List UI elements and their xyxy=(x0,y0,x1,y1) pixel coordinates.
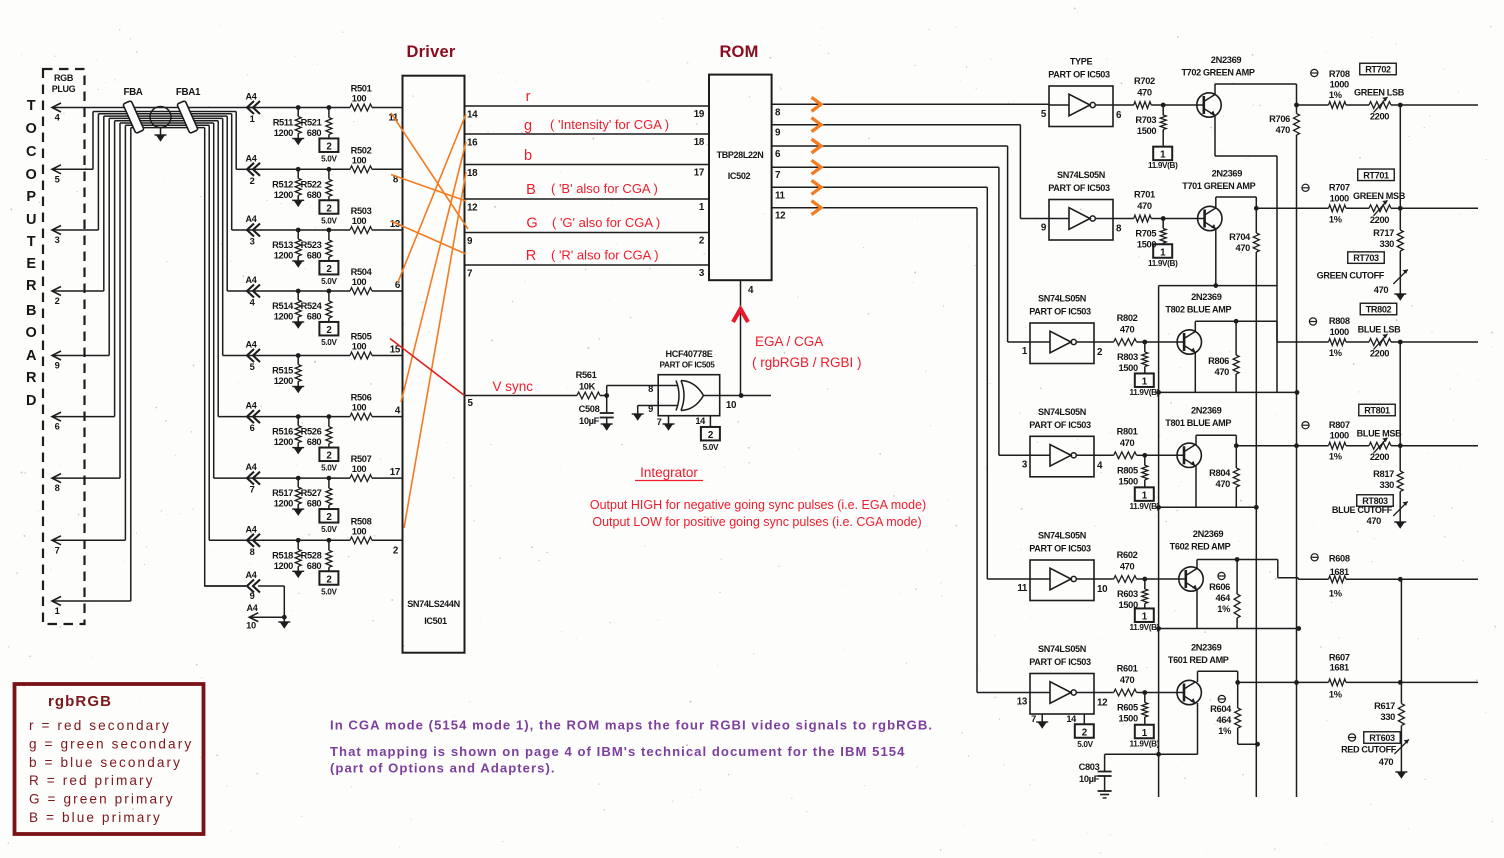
svg-text:11.9V(B): 11.9V(B) xyxy=(1130,623,1160,632)
wire T701 emitter route xyxy=(1159,229,1277,288)
svg-text:12: 12 xyxy=(467,203,478,214)
wire to XOR pin 8 xyxy=(607,386,659,396)
node T702 output xyxy=(1294,103,1299,108)
svg-text:680: 680 xyxy=(307,312,322,322)
svg-text:IC501: IC501 xyxy=(424,616,447,626)
node (base of T601) xyxy=(1142,690,1184,695)
driver pin 8 xyxy=(393,174,399,185)
svg-text:RT801: RT801 xyxy=(1364,406,1390,416)
potentiometer RED CUTOFF 470 xyxy=(1341,726,1409,772)
svg-text:2N2369: 2N2369 xyxy=(1191,405,1222,415)
svg-text:R607: R607 xyxy=(1329,652,1350,662)
svg-text:100: 100 xyxy=(352,94,367,104)
svg-text:1500: 1500 xyxy=(1137,126,1156,136)
wire row 2 xyxy=(246,168,403,170)
svg-text:A4: A4 xyxy=(246,524,258,534)
svg-text:R = red primary: R = red primary xyxy=(29,773,155,788)
transistor T802 2N2369 xyxy=(1165,292,1231,354)
net label R xyxy=(526,248,659,265)
svg-text:680: 680 xyxy=(307,128,322,138)
svg-text:100: 100 xyxy=(352,155,367,165)
svg-text:9: 9 xyxy=(1041,223,1047,234)
svg-text:4: 4 xyxy=(748,285,754,296)
svg-text:T702 GREEN AMP: T702 GREEN AMP xyxy=(1181,68,1254,78)
svg-text:7: 7 xyxy=(1031,714,1036,724)
inverter 5 (part of IC503) xyxy=(1017,531,1108,601)
svg-text:T701 GREEN AMP: T701 GREEN AMP xyxy=(1182,181,1255,191)
svg-text:10µF: 10µF xyxy=(579,416,600,426)
svg-text:680: 680 xyxy=(307,561,322,571)
svg-text:R527: R527 xyxy=(301,488,322,498)
wire row 3 xyxy=(246,229,403,231)
svg-text:2: 2 xyxy=(55,296,60,306)
wire T802 collector route xyxy=(1195,321,1277,342)
wire T601 emitter route xyxy=(1105,703,1198,757)
ROM IC502 TBP28L22N (box) xyxy=(709,75,772,281)
svg-text:TBP28L22N: TBP28L22N xyxy=(717,150,764,160)
wire to right edge xyxy=(1398,443,1478,448)
vertical caption TO COMPUTER BOARD xyxy=(26,98,37,409)
plug pin 3 wire xyxy=(52,114,98,245)
wire T601 collector route xyxy=(1198,671,1238,682)
svg-text:1: 1 xyxy=(1142,728,1148,739)
svg-text:14: 14 xyxy=(1066,714,1077,724)
svg-text:5.0V: 5.0V xyxy=(321,155,337,164)
ground (green cutoff) xyxy=(1394,294,1406,301)
svg-text:7: 7 xyxy=(55,545,60,555)
svg-text:( 'Intensity' for CGA ): ( 'Intensity' for CGA ) xyxy=(550,117,669,132)
svg-text:100: 100 xyxy=(352,526,367,536)
arrow marker A4-5 xyxy=(246,340,260,373)
svg-text:18: 18 xyxy=(694,137,705,148)
arrow marker A4-10 xyxy=(246,603,290,631)
power ref box 1 / 11.9V(B) xyxy=(1130,487,1160,511)
svg-text:1500: 1500 xyxy=(1119,363,1138,373)
svg-text:SN74LS05N: SN74LS05N xyxy=(1038,294,1086,304)
svg-text:R817: R817 xyxy=(1373,469,1394,479)
svg-text:RT701: RT701 xyxy=(1363,170,1389,180)
svg-text:A4: A4 xyxy=(246,340,258,350)
inverter 1 (part of IC503) xyxy=(1041,57,1122,127)
wire ROM pin 7 to inverter 4 xyxy=(772,167,1030,455)
driver pin 2 xyxy=(393,545,399,556)
svg-text:T: T xyxy=(27,234,36,250)
svg-text:( rgbRGB / RGBI ): ( rgbRGB / RGBI ) xyxy=(752,355,862,370)
svg-text:1%: 1% xyxy=(1329,452,1343,462)
svg-text:1%: 1% xyxy=(1329,689,1343,699)
svg-text:Integrator: Integrator xyxy=(640,465,698,480)
svg-text:464: 464 xyxy=(1217,715,1233,725)
svg-text:4: 4 xyxy=(55,113,61,123)
node (base of T802) xyxy=(1142,340,1184,345)
resistor R603 1500 xyxy=(1117,579,1148,610)
svg-text:1500: 1500 xyxy=(1119,476,1138,486)
svg-text:1%: 1% xyxy=(1329,90,1343,100)
boxed label RT701 xyxy=(1358,169,1395,181)
svg-text:3: 3 xyxy=(250,237,255,247)
resistor R704 470 xyxy=(1229,208,1259,253)
ground (C508) xyxy=(601,424,613,431)
svg-text:464: 464 xyxy=(1216,593,1232,603)
XOR pin 7 ground xyxy=(657,416,675,431)
capacitor C508 10uF xyxy=(579,396,614,427)
resistor R514 1200 xyxy=(272,289,304,329)
svg-text:1000: 1000 xyxy=(1330,193,1349,203)
svg-text:R717: R717 xyxy=(1373,228,1394,238)
arrow marker A4-4 xyxy=(246,275,260,308)
svg-text:R516: R516 xyxy=(272,427,293,437)
inverter 6 pin 14 to box 2 xyxy=(1066,714,1093,749)
svg-text:P: P xyxy=(26,189,36,205)
svg-text:BLUE CUTOFF: BLUE CUTOFF xyxy=(1332,505,1393,515)
svg-text:1200: 1200 xyxy=(274,437,293,447)
svg-text:R512: R512 xyxy=(272,179,293,189)
plug pin 2 wire xyxy=(52,116,104,306)
svg-text:470: 470 xyxy=(1120,562,1135,572)
wire T701 collector route xyxy=(1216,197,1257,208)
svg-text:That mapping is shown on page: That mapping is shown on page 4 of IBM's… xyxy=(330,744,905,759)
potentiometer GREEN MSB 2200 xyxy=(1346,191,1406,225)
svg-text:9: 9 xyxy=(467,236,473,247)
svg-text:4: 4 xyxy=(1097,460,1103,471)
svg-text:2: 2 xyxy=(708,430,714,441)
wire bundle right legs xyxy=(205,112,246,587)
resistor R508 100 xyxy=(350,516,372,543)
svg-text:A4: A4 xyxy=(246,214,258,224)
svg-text:B: B xyxy=(526,182,536,198)
driver pin 11 xyxy=(388,113,399,124)
svg-text:g: g xyxy=(524,118,532,134)
svg-text:R504: R504 xyxy=(351,267,373,277)
svg-text:9: 9 xyxy=(775,128,781,139)
svg-text:1000: 1000 xyxy=(1330,327,1349,337)
svg-text:T: T xyxy=(27,98,36,114)
wire row 7 xyxy=(246,477,403,479)
node (base of T801) xyxy=(1142,453,1184,458)
power ref box 1 / 11.9V(B) xyxy=(1130,373,1160,397)
ferrite bead FBA1 xyxy=(176,87,201,133)
svg-text:14: 14 xyxy=(695,416,706,426)
svg-text:680: 680 xyxy=(307,251,322,261)
resistor R701 470 xyxy=(1113,190,1163,222)
svg-text:(part of Options and Adapters): (part of Options and Adapters). xyxy=(330,761,556,776)
bus green (RT70x) xyxy=(1399,105,1401,230)
driver pin 5 / V sync wire xyxy=(465,379,578,409)
svg-text:R807: R807 xyxy=(1329,420,1350,430)
svg-text:1200: 1200 xyxy=(274,128,293,138)
svg-text:rgbRGB: rgbRGB xyxy=(48,693,112,710)
svg-text:R803: R803 xyxy=(1117,352,1138,362)
svg-text:2: 2 xyxy=(326,451,332,462)
transistor T701 2N2369 xyxy=(1182,169,1255,231)
svg-text:1200: 1200 xyxy=(274,312,293,322)
svg-text:1: 1 xyxy=(1142,612,1148,623)
potentiometer BLUE CUTOFF 470 xyxy=(1332,491,1408,526)
resistor R605 1500 xyxy=(1117,693,1148,725)
svg-text:11.9V(B): 11.9V(B) xyxy=(1130,502,1160,511)
svg-text:RED CUTOFF: RED CUTOFF xyxy=(1341,745,1397,755)
svg-text:R808: R808 xyxy=(1329,316,1350,326)
power ref box 2 / 5.0V xyxy=(319,322,338,347)
bus B2 (x=1256.3) xyxy=(1255,252,1257,797)
svg-text:2N2369: 2N2369 xyxy=(1211,55,1242,65)
resistor R617 330 xyxy=(1374,701,1404,726)
plug pin 4 wire xyxy=(52,103,252,123)
power ref box 2 / 5.0V xyxy=(319,138,338,163)
resistor R807 1000 1% (output row 4) xyxy=(1236,420,1350,462)
svg-text:A4: A4 xyxy=(246,401,258,411)
svg-text:O: O xyxy=(26,325,37,341)
wire driver pin 18 to ROM pin 17 xyxy=(465,165,710,180)
svg-text:R521: R521 xyxy=(301,118,322,128)
resistor R607 1681 1% (output row 6) xyxy=(1238,652,1350,699)
net label EGA / CGA xyxy=(752,334,862,370)
resistor R708 1000 1% (output row 1) xyxy=(1297,69,1350,108)
orange chevron marker 3 xyxy=(812,139,822,153)
resistor R523 680 xyxy=(301,228,332,261)
svg-text:A4: A4 xyxy=(247,603,259,613)
potentiometer GREEN LSB 2200 xyxy=(1346,88,1405,122)
svg-text:8: 8 xyxy=(55,483,60,493)
resistor R518 1200 xyxy=(272,538,304,578)
svg-text:PART OF IC503: PART OF IC503 xyxy=(1029,544,1091,554)
svg-text:R706: R706 xyxy=(1269,114,1290,124)
svg-text:5: 5 xyxy=(55,174,60,184)
svg-text:1681: 1681 xyxy=(1330,567,1349,577)
wire ROM pin 6 to inverter 3 xyxy=(772,146,1030,342)
net label B xyxy=(526,181,658,198)
svg-text:2: 2 xyxy=(326,142,332,153)
wire driver pin 9 to ROM pin 2 xyxy=(465,233,710,248)
svg-text:D: D xyxy=(26,393,36,409)
svg-text:Output HIGH for negative going: Output HIGH for negative going sync puls… xyxy=(590,498,926,512)
svg-text:G = green primary: G = green primary xyxy=(29,792,175,807)
node (base of T702) xyxy=(1161,103,1204,108)
svg-text:R702: R702 xyxy=(1134,76,1155,86)
svg-text:100: 100 xyxy=(352,403,367,413)
svg-text:1%: 1% xyxy=(1217,604,1231,614)
node T701 output xyxy=(1254,206,1259,211)
svg-text:R806: R806 xyxy=(1208,356,1229,366)
svg-text:g = green secondary: g = green secondary xyxy=(29,736,193,751)
resistor R522 680 xyxy=(301,167,332,200)
svg-text:14: 14 xyxy=(467,110,478,121)
svg-text:100: 100 xyxy=(352,464,367,474)
svg-text:Driver: Driver xyxy=(407,43,456,61)
svg-text:GREEN LSB: GREEN LSB xyxy=(1354,88,1405,98)
svg-text:C803: C803 xyxy=(1079,762,1100,772)
connector RGB PLUG (dashed outline) xyxy=(43,69,85,624)
net label b xyxy=(524,148,532,164)
svg-text:R707: R707 xyxy=(1329,183,1350,193)
resistor R526 680 xyxy=(301,414,332,447)
svg-text:1681: 1681 xyxy=(1330,662,1349,672)
svg-text:2: 2 xyxy=(393,545,399,556)
svg-text:470: 470 xyxy=(1120,325,1135,335)
svg-text:R506: R506 xyxy=(351,393,372,403)
svg-text:470: 470 xyxy=(1137,88,1152,98)
svg-text:5.0V: 5.0V xyxy=(703,443,719,452)
svg-text:5: 5 xyxy=(1041,109,1047,120)
svg-text:A4: A4 xyxy=(246,275,258,285)
resistor R515 1200 xyxy=(272,353,304,393)
wire T702 collector route xyxy=(1215,84,1297,105)
svg-text:11.9V(B): 11.9V(B) xyxy=(1148,259,1178,268)
resistor R528 680 xyxy=(301,538,332,571)
svg-text:470: 470 xyxy=(1216,479,1231,489)
svg-text:9: 9 xyxy=(250,591,255,601)
svg-text:2: 2 xyxy=(326,264,332,275)
svg-text:5.0V: 5.0V xyxy=(321,525,337,534)
svg-text:R: R xyxy=(526,248,536,264)
resistor R805 1500 xyxy=(1117,455,1148,487)
resistor R501 100 xyxy=(350,84,372,111)
svg-text:17: 17 xyxy=(390,467,401,478)
svg-text:19: 19 xyxy=(694,109,705,120)
boxed label RT703 xyxy=(1348,252,1385,264)
plug pin 8 wire xyxy=(52,123,120,493)
svg-text:SN74LS05N: SN74LS05N xyxy=(1057,170,1105,180)
svg-text:R805: R805 xyxy=(1117,465,1138,475)
arrow marker A4-7 xyxy=(246,462,260,495)
svg-text:U: U xyxy=(26,212,36,228)
svg-text:470: 470 xyxy=(1236,243,1251,253)
svg-text:SN74LS05N: SN74LS05N xyxy=(1038,531,1086,541)
svg-text:11: 11 xyxy=(775,190,786,201)
resistor R511 1200 xyxy=(273,105,305,145)
svg-text:470: 470 xyxy=(1374,285,1389,295)
resistor R606 464 1% (theta) xyxy=(1209,560,1240,629)
bus B4 (x=1296.5) xyxy=(1294,135,1299,797)
wire T702 emitter route xyxy=(1215,116,1277,157)
svg-text:B = blue primary: B = blue primary xyxy=(29,810,162,825)
driver pin 4 xyxy=(395,406,401,417)
svg-text:470: 470 xyxy=(1215,367,1230,377)
orange chevron marker 6 xyxy=(812,201,822,215)
power ref box 2 / 5.0V xyxy=(319,509,338,534)
svg-text:T802 BLUE AMP: T802 BLUE AMP xyxy=(1165,305,1231,315)
svg-text:5.0V: 5.0V xyxy=(321,587,337,596)
svg-text:B: B xyxy=(26,303,36,319)
boxed label RT801 xyxy=(1359,404,1396,416)
svg-text:100: 100 xyxy=(352,342,367,352)
svg-text:R505: R505 xyxy=(351,332,372,342)
svg-text:3: 3 xyxy=(55,235,60,245)
resistor R502 100 xyxy=(350,145,372,172)
svg-text:5: 5 xyxy=(250,362,255,372)
wire CGA mapping (orange) 2 xyxy=(391,175,466,202)
plug pin 6 wire xyxy=(52,121,115,432)
svg-text:In CGA mode (5154 mode 1), the: In CGA mode (5154 mode 1), the ROM maps … xyxy=(330,718,933,733)
svg-text:13: 13 xyxy=(1017,697,1028,708)
transistor T602 2N2369 xyxy=(1170,529,1231,591)
svg-text:R704: R704 xyxy=(1229,232,1251,242)
XOR output pin 10 wire xyxy=(720,393,771,411)
svg-text:FBA: FBA xyxy=(123,87,142,98)
svg-text:2200: 2200 xyxy=(1370,349,1389,359)
ground (blue cutoff) xyxy=(1394,522,1406,529)
power ref box 2 / 5.0V xyxy=(319,571,338,596)
caption Integrator xyxy=(635,465,703,481)
resistor R804 470 xyxy=(1209,446,1239,508)
wire T602 collector route xyxy=(1197,560,1298,580)
svg-text:( 'B' also for CGA ): ( 'B' also for CGA ) xyxy=(551,181,658,196)
shield ground circle xyxy=(150,107,171,142)
wire T801 collector route xyxy=(1196,435,1236,445)
node T601 output xyxy=(1235,680,1240,685)
svg-text:1: 1 xyxy=(1160,150,1166,161)
boxed label RT803 xyxy=(1357,495,1394,507)
plug pin 5 wire xyxy=(52,112,93,185)
resistor R516 1200 xyxy=(272,414,304,454)
svg-text:2200: 2200 xyxy=(1370,112,1389,122)
wire T602 emitter route xyxy=(1156,590,1301,631)
svg-text:T602 RED AMP: T602 RED AMP xyxy=(1170,542,1231,552)
svg-text:T601 RED AMP: T601 RED AMP xyxy=(1168,655,1229,665)
svg-text:7: 7 xyxy=(467,269,473,280)
wire driver pin 7 to ROM pin 3 xyxy=(465,265,710,280)
resistor R507 100 xyxy=(350,454,372,481)
svg-text:PART OF IC503: PART OF IC503 xyxy=(1029,657,1091,667)
svg-text:8: 8 xyxy=(775,107,781,118)
svg-text:SN74LS05N: SN74LS05N xyxy=(1038,644,1086,654)
svg-text:2N2369: 2N2369 xyxy=(1191,643,1222,653)
svg-text:1: 1 xyxy=(1142,490,1148,501)
wire + ground XOR pin 9 xyxy=(632,406,659,421)
svg-text:1200: 1200 xyxy=(274,190,293,200)
inverter 2 (part of IC503) xyxy=(1041,170,1122,240)
arrow marker A4-6 xyxy=(246,401,260,434)
wire CGA mapping (orange) 5 xyxy=(401,142,466,402)
resistor R802 470 xyxy=(1094,313,1145,345)
svg-text:R508: R508 xyxy=(351,516,372,526)
node R806 top xyxy=(1234,319,1239,324)
net label r xyxy=(526,89,531,105)
svg-text:330: 330 xyxy=(1381,712,1396,722)
resistor R608 1681 1% (output row 5) xyxy=(1298,554,1350,599)
svg-text:R604: R604 xyxy=(1210,704,1232,714)
resistor R601 470 xyxy=(1094,664,1145,696)
wire row 8 xyxy=(246,539,403,541)
transistor T601 2N2369 xyxy=(1168,643,1229,705)
arrow marker A4-1 xyxy=(246,92,260,125)
wire row 5 xyxy=(246,355,403,357)
svg-text:1: 1 xyxy=(699,202,705,213)
svg-text:1: 1 xyxy=(1160,247,1166,258)
svg-text:470: 470 xyxy=(1379,757,1394,767)
ROM pin 4 wire xyxy=(741,280,755,395)
svg-text:1%: 1% xyxy=(1329,348,1343,358)
potentiometer BLUE MSB 2200 xyxy=(1346,428,1402,462)
svg-text:1: 1 xyxy=(250,114,255,124)
svg-text:TYPE: TYPE xyxy=(1070,57,1093,67)
svg-text:( 'G' also for CGA ): ( 'G' also for CGA ) xyxy=(552,215,660,230)
svg-text:6: 6 xyxy=(775,149,781,160)
net label G xyxy=(526,215,660,232)
svg-text:6: 6 xyxy=(250,423,255,433)
svg-text:6: 6 xyxy=(55,422,60,432)
svg-text:330: 330 xyxy=(1380,480,1395,490)
svg-text:R501: R501 xyxy=(351,84,372,94)
wire driver pin 14 to ROM pin 19 xyxy=(465,106,710,121)
wire CGA mapping (orange) 6 xyxy=(404,172,466,528)
svg-text:R802: R802 xyxy=(1117,313,1138,323)
title Driver xyxy=(407,43,456,61)
node junction (R561/C508) xyxy=(604,393,609,398)
inverter 3 (part of IC503) xyxy=(1022,294,1103,364)
svg-text:R522: R522 xyxy=(301,179,322,189)
resistor R801 470 xyxy=(1094,426,1145,458)
